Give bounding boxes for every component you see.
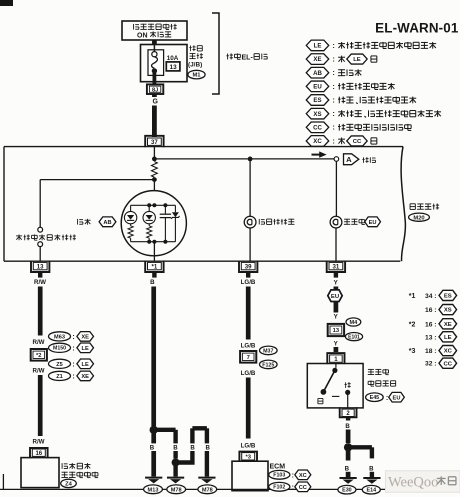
svg-text:M1: M1 xyxy=(192,73,201,79)
svg-text:16 :: 16 : xyxy=(425,307,437,314)
svg-text:LE: LE xyxy=(314,43,322,50)
svg-text:B: B xyxy=(205,445,210,452)
svg-text::: : xyxy=(292,472,294,479)
svg-text:EU: EU xyxy=(393,395,401,401)
svg-text:A: A xyxy=(346,155,352,164)
svg-text:18 :: 18 : xyxy=(425,348,437,355)
svg-text:Z1: Z1 xyxy=(56,374,63,380)
svg-text:AB: AB xyxy=(103,220,111,226)
svg-text:(J/B): (J/B) xyxy=(188,62,202,69)
svg-text:XC: XC xyxy=(444,349,453,355)
svg-text:XE: XE xyxy=(81,334,89,340)
svg-text::: : xyxy=(332,54,335,63)
svg-text::: : xyxy=(386,395,388,402)
svg-text:*3: *3 xyxy=(245,454,251,460)
svg-text:B: B xyxy=(190,445,195,452)
svg-text:31: 31 xyxy=(333,263,340,270)
svg-text:M13: M13 xyxy=(148,487,159,493)
svg-text:LG/B: LG/B xyxy=(241,370,256,377)
svg-text:LE: LE xyxy=(82,346,89,352)
svg-text:XE: XE xyxy=(444,322,452,328)
svg-text::: : xyxy=(332,95,335,104)
svg-text::: : xyxy=(332,68,335,77)
svg-text:EU: EU xyxy=(331,294,339,300)
svg-text:AB: AB xyxy=(313,70,322,77)
svg-text:13: 13 xyxy=(37,263,44,270)
svg-text:M37: M37 xyxy=(263,348,273,354)
svg-text:F102: F102 xyxy=(273,485,285,491)
svg-text:XE: XE xyxy=(313,56,321,63)
svg-text:E14: E14 xyxy=(367,488,377,494)
svg-text::: : xyxy=(332,109,335,118)
svg-text:10A: 10A xyxy=(167,55,179,62)
svg-text:B: B xyxy=(345,423,350,430)
svg-text:16: 16 xyxy=(35,451,42,457)
svg-text:B: B xyxy=(369,465,374,472)
svg-text:Z5: Z5 xyxy=(56,362,63,368)
svg-text:*1: *1 xyxy=(409,293,416,300)
svg-text:LE: LE xyxy=(444,335,452,341)
svg-text:LG/B: LG/B xyxy=(241,442,256,449)
svg-text:ES: ES xyxy=(313,97,321,104)
svg-text:E101: E101 xyxy=(348,334,360,340)
svg-text:EL-: EL- xyxy=(242,54,254,61)
svg-text::: : xyxy=(72,374,74,381)
svg-text:XE: XE xyxy=(81,374,89,380)
svg-text:B: B xyxy=(150,279,155,286)
svg-text:WeeQoo: WeeQoo xyxy=(388,475,438,491)
svg-text:E45: E45 xyxy=(370,395,380,401)
svg-text:F103: F103 xyxy=(273,473,285,479)
svg-text:Z4: Z4 xyxy=(65,481,73,487)
svg-text:LE: LE xyxy=(353,57,361,63)
svg-text::: : xyxy=(332,41,335,50)
svg-text:ON: ON xyxy=(137,32,148,39)
svg-text:32 :: 32 : xyxy=(425,361,437,368)
svg-text:M78: M78 xyxy=(171,487,182,493)
svg-text:M20: M20 xyxy=(413,215,424,221)
svg-text::: : xyxy=(332,136,335,145)
svg-text:13: 13 xyxy=(333,328,340,334)
svg-text:ES: ES xyxy=(444,294,452,300)
svg-text:*3: *3 xyxy=(409,348,416,355)
svg-text:*2: *2 xyxy=(409,321,416,328)
svg-text:34 :: 34 : xyxy=(425,293,437,300)
svg-text:R/W: R/W xyxy=(32,339,44,346)
svg-text::: : xyxy=(72,334,74,341)
svg-text:CC: CC xyxy=(313,124,322,131)
svg-text:7: 7 xyxy=(247,355,250,361)
svg-text:16 :: 16 : xyxy=(425,321,437,328)
svg-text:Y: Y xyxy=(334,314,339,321)
svg-text:EL-WARN-01: EL-WARN-01 xyxy=(375,21,459,36)
svg-text:XC: XC xyxy=(313,138,322,145)
svg-text::: : xyxy=(72,345,74,352)
svg-text:EU: EU xyxy=(369,220,377,226)
svg-text:R/W: R/W xyxy=(32,439,44,446)
svg-text:LG/B: LG/B xyxy=(241,279,256,286)
svg-text::: : xyxy=(72,361,74,368)
svg-text:B: B xyxy=(345,465,350,472)
svg-text:E30: E30 xyxy=(342,488,352,494)
svg-text:B: B xyxy=(150,445,155,452)
svg-text:EU: EU xyxy=(313,84,322,91)
svg-text:37: 37 xyxy=(151,139,158,146)
svg-text:XS: XS xyxy=(444,308,452,314)
svg-text:13: 13 xyxy=(170,64,178,71)
svg-text:R/W: R/W xyxy=(34,279,46,286)
svg-text:CC: CC xyxy=(444,361,453,367)
svg-text:13 :: 13 : xyxy=(425,334,437,341)
svg-text:R/W: R/W xyxy=(32,368,44,375)
svg-text:XS: XS xyxy=(313,111,321,118)
svg-text:Y: Y xyxy=(334,341,339,348)
svg-text:*2: *2 xyxy=(36,353,41,359)
svg-text:8J: 8J xyxy=(152,87,158,93)
svg-text:Y: Y xyxy=(334,280,339,287)
svg-text:M78: M78 xyxy=(202,487,213,493)
svg-text:M4: M4 xyxy=(350,320,359,326)
svg-text:*1: *1 xyxy=(152,263,158,270)
svg-text::: : xyxy=(332,123,335,132)
svg-text:LG/B: LG/B xyxy=(241,342,256,349)
svg-text::: : xyxy=(332,82,335,91)
svg-text:G: G xyxy=(152,99,158,106)
svg-text::: : xyxy=(292,484,294,491)
svg-text:M63: M63 xyxy=(54,334,65,340)
svg-text:CC: CC xyxy=(299,485,307,491)
svg-text:39: 39 xyxy=(245,263,252,270)
svg-text:LE: LE xyxy=(82,362,89,368)
svg-text:M150: M150 xyxy=(53,346,66,352)
svg-text:CC: CC xyxy=(353,139,362,145)
svg-text:XC: XC xyxy=(299,473,307,479)
svg-text:F125: F125 xyxy=(262,362,274,368)
svg-text:B: B xyxy=(173,445,178,452)
svg-text:ECM: ECM xyxy=(270,464,286,471)
